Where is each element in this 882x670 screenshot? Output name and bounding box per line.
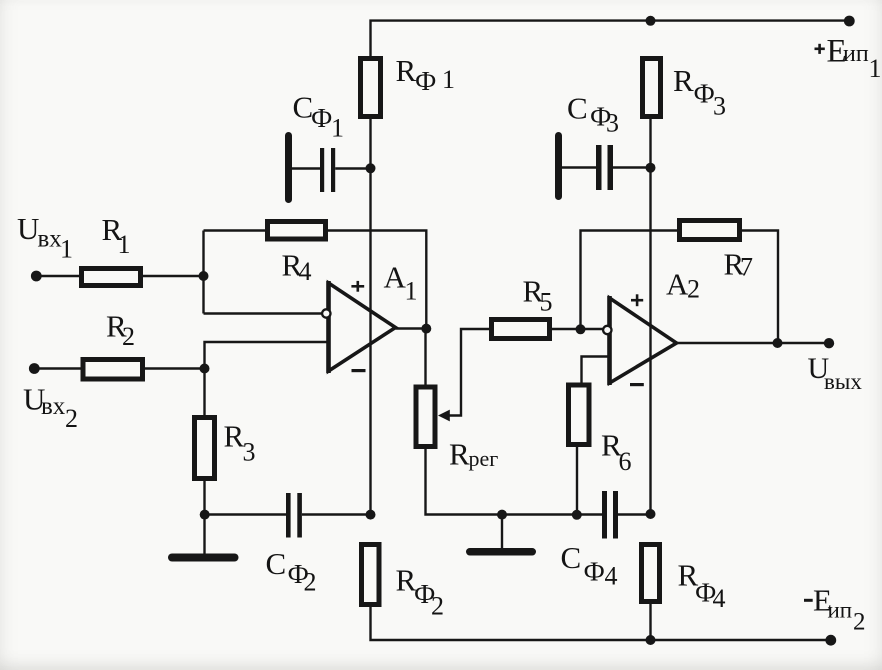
node: R5 / R7 / inverting input A2 — [576, 324, 586, 334]
wire: R5 to A2 inverting input — [552, 328, 603, 330]
svg-text:3: 3 — [713, 92, 726, 121]
svg-text:Ф: Ф — [288, 559, 309, 589]
svg-text:R: R — [224, 419, 245, 454]
node: R1 / R4 / inverting input — [199, 271, 209, 281]
resistor R4 — [268, 222, 326, 240]
svg-text:Ф: Ф — [590, 102, 611, 132]
svg-text:3: 3 — [243, 438, 256, 467]
node: R6 / CФ4 — [572, 510, 582, 520]
resistor R7 — [680, 221, 740, 240]
wire: R6 bottom to common rail — [576, 445, 578, 515]
svg-text:2: 2 — [65, 404, 78, 433]
svg-text:Ф: Ф — [311, 103, 332, 133]
svg-text:C: C — [561, 540, 582, 575]
node: A1 output junction — [421, 324, 431, 334]
terminal Uвх1 — [31, 271, 42, 282]
wire: RФ2 to negative rail — [371, 607, 832, 640]
node: +Eип1 terminal — [844, 16, 855, 27]
label CФ2 — [266, 546, 317, 597]
wire: R1 to inverting node — [143, 275, 204, 277]
wire: inverting node vertical — [202, 231, 204, 314]
wire: potentiometer bottom to common rail — [426, 449, 603, 515]
node: CФ1 to supply column — [366, 163, 376, 173]
label A2 — [666, 267, 700, 304]
node: R2 / R3 / non-inverting input — [200, 364, 210, 374]
svg-text:4: 4 — [299, 257, 312, 286]
svg-text:Ф: Ф — [694, 79, 715, 109]
resistor R2 — [83, 360, 143, 380]
svg-text:C: C — [567, 91, 588, 126]
svg-text:E: E — [827, 34, 847, 70]
node: CФ2 / RФ2 / supply column — [366, 510, 376, 520]
svg-text:рег: рег — [469, 446, 499, 471]
label -Eип2 — [804, 583, 866, 636]
wire: R3 bottom to node — [203, 481, 205, 515]
wire: A1 output — [396, 327, 427, 329]
svg-text:R: R — [396, 53, 417, 88]
node: common rail / ground2 — [497, 510, 507, 520]
svg-text:7: 7 — [740, 253, 753, 282]
resistor R5 — [492, 320, 550, 339]
node: rail to RФ3 junction — [646, 16, 656, 26]
svg-text:C: C — [266, 546, 287, 581]
node: R3 / CФ2 / ground1 — [200, 510, 210, 520]
svg-text:1: 1 — [60, 235, 73, 264]
label R2 — [106, 309, 135, 352]
label RФ4 — [678, 558, 726, 614]
op-amp A1 — [322, 281, 395, 373]
svg-text:2: 2 — [853, 609, 866, 636]
label CФ1 — [293, 90, 345, 143]
label RФ1 — [396, 53, 456, 96]
wire: Uвх2 to R2 — [34, 367, 81, 369]
label R6 — [601, 428, 632, 477]
wire: to R4 left — [204, 229, 266, 231]
svg-text:Ф: Ф — [414, 579, 435, 609]
wire: RФ3 / A2 supply column — [649, 119, 651, 515]
resistor RФ4 — [642, 545, 660, 602]
label A1 — [384, 260, 418, 306]
label RФ2 — [396, 563, 445, 621]
terminal Uвых — [824, 338, 834, 348]
node: CФ3 to supply column — [646, 163, 656, 173]
resistor R3 — [195, 418, 215, 479]
svg-text:ип: ип — [843, 41, 869, 67]
node: -Eип2 terminal — [825, 635, 836, 646]
node: CФ4 / RФ4 / supply column — [646, 509, 656, 519]
svg-text:C: C — [293, 90, 314, 125]
svg-text:R: R — [724, 247, 745, 282]
svg-text:U: U — [23, 382, 45, 417]
svg-text:1: 1 — [118, 230, 131, 259]
svg-text:2: 2 — [431, 592, 444, 621]
svg-text:1: 1 — [869, 54, 882, 83]
wire: RФ1 / A1 supply column — [369, 119, 371, 515]
wire: R7 feedback loop — [581, 231, 678, 330]
capacitor CФ4 — [602, 491, 651, 539]
label R1 — [102, 212, 131, 259]
wire: positive supply rail +Eип1 — [371, 21, 850, 58]
wire: non-inverting node vertical + into A1 — [205, 342, 329, 415]
label R3 — [224, 419, 256, 467]
svg-text:1: 1 — [405, 277, 418, 306]
svg-text:Ф: Ф — [584, 557, 605, 587]
svg-text:E: E — [813, 583, 832, 618]
wire: RФ4 to negative rail — [649, 604, 651, 640]
svg-text:A: A — [666, 267, 689, 302]
wire: A2 non-inverting input from R6 — [582, 357, 610, 384]
svg-text:6: 6 — [619, 447, 632, 476]
ground (left) — [168, 515, 239, 562]
capacitor CФ2 — [205, 493, 371, 538]
svg-text:вх: вх — [41, 393, 66, 420]
ground (right) — [466, 515, 536, 556]
svg-text:ип: ип — [828, 598, 853, 623]
svg-text:R: R — [282, 248, 303, 283]
label Uвх1 — [17, 211, 73, 264]
capacitor CФ3 — [555, 132, 651, 200]
svg-text:Ф: Ф — [415, 66, 436, 96]
wire: R2 to non-inverting node — [145, 367, 205, 369]
svg-text:4: 4 — [713, 584, 726, 613]
svg-text:R: R — [523, 274, 544, 309]
terminal Uвх2 — [29, 363, 40, 374]
svg-text:R: R — [102, 212, 123, 247]
svg-text:R: R — [106, 309, 127, 344]
svg-text:R: R — [678, 558, 699, 593]
wire: A2 output to Uвых — [676, 342, 829, 344]
potentiometer Rрег — [416, 329, 489, 447]
resistor RФ3 — [643, 59, 661, 117]
label R4 — [282, 248, 312, 287]
label R5 — [523, 274, 553, 317]
label Rрег — [449, 437, 498, 472]
svg-text:4: 4 — [605, 562, 618, 591]
label Uвх2 — [23, 382, 78, 434]
wire: Uвх1 to R1 — [36, 275, 79, 277]
svg-text:5: 5 — [540, 288, 553, 317]
svg-text:R: R — [673, 63, 694, 98]
svg-text:A: A — [384, 260, 407, 295]
svg-text:2: 2 — [304, 568, 317, 597]
wire: R7 right to output — [742, 231, 778, 344]
node: negative rail / RФ4 — [646, 635, 656, 645]
svg-text:U: U — [808, 352, 830, 385]
label R7 — [724, 247, 754, 282]
resistor R6 — [569, 385, 590, 445]
label Uвых — [808, 352, 863, 394]
wire: inverting input into A1 — [204, 312, 322, 314]
svg-text:вх: вх — [38, 226, 63, 253]
op-amp A2 — [603, 294, 676, 385]
wire: R4 right to output column — [328, 231, 426, 329]
svg-text:2: 2 — [687, 275, 700, 304]
svg-text:2: 2 — [122, 322, 135, 351]
label RФ3 — [673, 63, 726, 121]
svg-text:R: R — [449, 437, 470, 472]
capacitor CФ1 — [285, 132, 371, 203]
wire: output to potentiometer — [424, 329, 426, 386]
resistor R1 — [82, 269, 141, 286]
label CФ4 — [561, 540, 618, 591]
resistor RФ2 — [362, 545, 380, 605]
svg-text:R: R — [601, 428, 622, 463]
svg-text:вых: вых — [824, 369, 862, 394]
resistor RФ1 — [361, 59, 381, 117]
label CФ3 — [567, 91, 619, 138]
svg-text:Ф: Ф — [695, 578, 716, 608]
svg-text:1: 1 — [331, 114, 344, 143]
svg-text:U: U — [17, 211, 39, 246]
svg-text:3: 3 — [606, 109, 619, 138]
svg-text:1: 1 — [442, 65, 455, 94]
label +Eип1 — [815, 34, 882, 84]
svg-text:R: R — [396, 563, 417, 598]
node: output / R7 junction — [773, 338, 783, 348]
